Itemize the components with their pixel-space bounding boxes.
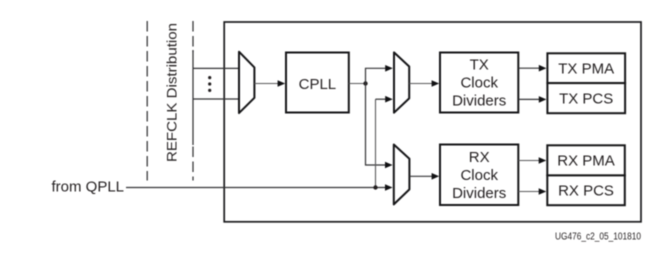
svg-text:TX PCS: TX PCS [559, 91, 613, 108]
wire RX Clock Dividers to RX PMA with arrowhead [518, 157, 546, 164]
wire junction A up to TX mux input 1 with arrowhead [366, 65, 393, 84]
svg-text:RX: RX [469, 149, 490, 166]
svg-text:from QPLL: from QPLL [52, 179, 125, 196]
wire from QPLL to RX mux input 2 with arrowhead [126, 184, 393, 191]
svg-text:Dividers: Dividers [452, 93, 506, 110]
svg-text:Dividers: Dividers [452, 185, 506, 202]
block RX Clock Dividers [440, 145, 518, 206]
svg-text:RX PMA: RX PMA [557, 153, 615, 170]
wire mux M3 output to RX Clock Dividers with arrowhead [409, 173, 439, 180]
mux M2 TX clock select [394, 52, 409, 112]
svg-text:TX: TX [470, 57, 489, 74]
wire mux M1 output to CPLL with arrowhead [254, 80, 285, 87]
refclk bus solid vertical segment [192, 50, 194, 145]
junction dot A on CPLL output [363, 81, 367, 85]
svg-text:RX PCS: RX PCS [558, 183, 614, 200]
svg-text:CPLL: CPLL [299, 76, 337, 93]
dashed boundary line right of REFCLK Distribution (lower dashed part) [192, 147, 194, 181]
wire RX Clock Dividers to RX PCS with arrowhead [518, 188, 546, 195]
svg-text:Clock: Clock [460, 75, 498, 92]
vertical ellipsis dots between refclk inputs [208, 76, 211, 92]
block TX PMA [547, 53, 625, 83]
block CPLL [286, 53, 349, 113]
mux M1 refclk select [239, 52, 254, 113]
svg-text:UG476_c2_05_101810: UG476_c2_05_101810 [555, 232, 641, 243]
outer box GTX transceiver channel [224, 22, 641, 222]
wire QPLL branch up to TX mux input 2 with arrowhead [376, 96, 393, 188]
junction dot B on QPLL wire [373, 185, 377, 189]
wire refclk input 1 to mux M1 [193, 67, 239, 69]
svg-text:TX PMA: TX PMA [558, 60, 614, 77]
svg-text:REFCLK Distribution: REFCLK Distribution [164, 23, 180, 162]
dashed boundary line right of REFCLK Distribution (upper dashed part) [192, 21, 194, 52]
wire refclk input 2 to mux M1 [193, 98, 239, 100]
wire TX Clock Dividers to TX PCS with arrowhead [518, 96, 546, 103]
wire junction A down to RX mux input 1 with arrowhead [366, 84, 393, 169]
wire CPLL output to junction A [349, 83, 366, 85]
wire mux M2 output to TX Clock Dividers with arrowhead [409, 80, 439, 87]
block TX Clock Dividers [440, 53, 518, 113]
svg-text:Clock: Clock [460, 167, 498, 184]
mux M3 RX clock select [394, 145, 410, 205]
dashed boundary line left of REFCLK Distribution [146, 21, 148, 181]
block TX PCS [547, 83, 625, 113]
block RX PCS [547, 175, 625, 205]
wire TX Clock Dividers to TX PMA with arrowhead [518, 65, 546, 72]
block RX PMA [547, 145, 625, 175]
